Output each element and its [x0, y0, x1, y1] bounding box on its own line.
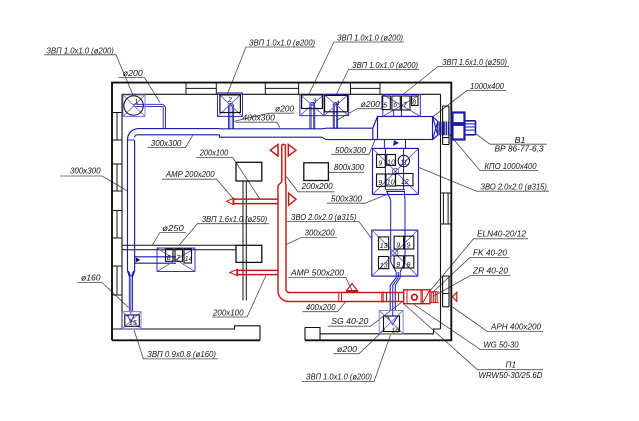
- lower grille box: [372, 230, 418, 276]
- left wall inner: [121, 94, 123, 329]
- vertical duct 300x200: [278, 186, 286, 291]
- svg-text:АМР 200x200: АМР 200x200: [165, 170, 215, 179]
- right cone: [433, 117, 438, 140]
- svg-text:FK 40-20: FK 40-20: [473, 249, 508, 258]
- svg-text:15: 15: [129, 320, 137, 327]
- riser 4: [333, 103, 337, 129]
- leader WG: [413, 304, 520, 350]
- hood rect 2: [304, 163, 329, 181]
- spur duct to ZVP1.6 box: [135, 257, 176, 263]
- diffuser 15 rect: [125, 315, 140, 326]
- svg-text:1000x400: 1000x400: [470, 82, 505, 91]
- funnel lower box: [391, 262, 405, 278]
- window L1: [112, 113, 122, 141]
- diffuser 4 box: [325, 95, 348, 111]
- svg-text:КПО 1000x400: КПО 1000x400: [485, 162, 538, 171]
- KPO wall sleeve top (fan): [443, 106, 449, 145]
- duct 300x300 horizontal: [137, 129, 219, 135]
- leader 400x200: [303, 302, 346, 312]
- fan outlet louver: [465, 121, 476, 135]
- svg-text:14: 14: [185, 256, 193, 263]
- svg-text:ВР 86-77-6,3: ВР 86-77-6,3: [495, 145, 545, 154]
- svg-text:9: 9: [407, 243, 411, 250]
- leader 300x200: [286, 238, 337, 245]
- flanges: [339, 292, 383, 303]
- box 13b: [379, 257, 389, 269]
- window R1: [441, 193, 452, 224]
- X grille 5-8 box: [383, 95, 421, 117]
- box 8 left: [166, 249, 174, 261]
- duct 400x300: [220, 129, 323, 137]
- riser to diffuser 16: [390, 278, 400, 316]
- svg-text:WRW50-30/25.6D: WRW50-30/25.6D: [479, 371, 543, 380]
- box 7 left: [175, 249, 183, 261]
- right wall inner: [440, 94, 442, 329]
- svg-text:1: 1: [134, 99, 138, 106]
- riser 2: [229, 103, 234, 129]
- svg-text:WG 50-30: WG 50-30: [484, 341, 520, 350]
- leader KPO: [450, 135, 539, 171]
- flex connector striped: [430, 292, 439, 303]
- leader ZVP2: [228, 47, 316, 94]
- svg-text:ø200: ø200: [123, 69, 144, 78]
- box 9b: [377, 174, 386, 186]
- box 9e: [394, 256, 404, 268]
- svg-text:В1: В1: [515, 136, 526, 145]
- diffuser 3 box: [302, 95, 323, 109]
- window T1: [186, 83, 216, 95]
- riser 3: [310, 102, 315, 128]
- riser to grille 5-8: [394, 110, 402, 117]
- svg-text:9: 9: [378, 161, 382, 168]
- leader F200 #4: [334, 329, 386, 354]
- leader ZVP3: [309, 42, 404, 94]
- blue flow arrow: [393, 140, 399, 146]
- svg-text:9: 9: [378, 180, 382, 187]
- window T2: [265, 83, 298, 95]
- leader APH: [453, 307, 544, 332]
- arrow upper: [227, 198, 234, 204]
- leader AMP500x200: [288, 277, 353, 292]
- duct 500x300: [322, 128, 373, 139]
- svg-text:ЗВО 2.0x2.0 (ø315): ЗВО 2.0x2.0 (ø315): [291, 213, 357, 222]
- duct f160: [129, 278, 132, 315]
- leader label ZVP1 top-left: [44, 55, 133, 95]
- leader ZVP4: [336, 70, 419, 96]
- flange: [128, 139, 135, 141]
- bottom wall inner right: [305, 328, 441, 341]
- funnel in diffuser 15: [128, 315, 134, 322]
- APH wall sleeve bottom: [443, 276, 449, 307]
- X diffuser 3: [300, 94, 324, 115]
- duct plenum to upper box: [384, 140, 405, 149]
- leader F160: [78, 283, 129, 308]
- leader V1: [476, 134, 547, 144]
- top wall inner: [122, 93, 441, 95]
- leader 500x300: [331, 140, 375, 155]
- black duct 200x100 vertical: [243, 181, 246, 301]
- duct between boxes: [391, 200, 405, 230]
- svg-text:200x200: 200x200: [301, 182, 334, 191]
- transition to plenum: [373, 117, 378, 140]
- svg-text:200x100: 200x100: [199, 149, 229, 158]
- X diffuser 2: [218, 93, 243, 117]
- box 9d: [404, 236, 414, 249]
- outlet arrow through wall: [452, 292, 457, 301]
- hood rect 1: [236, 162, 262, 181]
- box 9: [377, 155, 386, 168]
- svg-text:ø160: ø160: [81, 273, 101, 282]
- spur arrow: [136, 258, 141, 263]
- svg-text:ЗВО 2.0x2.0 (ø315): ЗВО 2.0x2.0 (ø315): [480, 182, 547, 191]
- svg-text:800x300: 800x300: [334, 163, 365, 172]
- diffuser 1 square: [123, 95, 145, 117]
- X upper grille box: [373, 148, 419, 194]
- svg-text:ЗВП 1.0x1.0 (ø200): ЗВП 1.0x1.0 (ø200): [46, 47, 114, 56]
- svg-text:13: 13: [380, 243, 388, 250]
- svg-text:5: 5: [383, 103, 387, 110]
- svg-text:10: 10: [387, 180, 395, 187]
- window T3: [351, 83, 381, 95]
- leader ZVO315 #2: [287, 222, 372, 239]
- leader 200x100 bottom: [212, 276, 266, 318]
- flex connector: [439, 122, 441, 136]
- leader 1000x400: [433, 91, 507, 118]
- box 9c: [394, 236, 404, 249]
- svg-text:3: 3: [313, 99, 317, 106]
- leader 500x300 #2: [327, 194, 388, 203]
- svg-text:6: 6: [393, 102, 397, 109]
- leader F200 #3: [337, 109, 382, 121]
- leader F200 #1: [119, 78, 161, 103]
- svg-text:13: 13: [380, 263, 388, 270]
- circle 11: [398, 155, 409, 166]
- thin duct lower: [237, 270, 278, 274]
- svg-text:500x300: 500x300: [331, 195, 363, 204]
- box 10: [387, 155, 396, 166]
- black duct f250 horizontal: [122, 245, 236, 249]
- svg-text:8: 8: [167, 255, 171, 262]
- svg-text:П1: П1: [506, 361, 517, 370]
- leader ZVP 1.6 top: [403, 67, 509, 95]
- svg-text:ЗВП 0.9x0.8 (ø160): ЗВП 0.9x0.8 (ø160): [147, 350, 216, 359]
- leader ZVP 1.6 #2: [179, 224, 269, 246]
- svg-text:ЗВП 1.0x1.0 (ø200): ЗВП 1.0x1.0 (ø200): [352, 61, 418, 70]
- V transition left duct: [128, 271, 135, 278]
- transition: [278, 182, 286, 186]
- svg-text:8: 8: [412, 100, 416, 107]
- supply opening triangle on top: [347, 284, 358, 291]
- svg-text:11: 11: [400, 160, 407, 167]
- box 12: [396, 174, 414, 186]
- leader 300x300 left: [60, 176, 128, 191]
- leader F200 #2: [234, 113, 295, 121]
- svg-text:ЗВП 1.0x1.0 (ø200): ЗВП 1.0x1.0 (ø200): [249, 39, 315, 48]
- riser duct narrow: [282, 145, 286, 182]
- svg-text:300x300: 300x300: [70, 167, 101, 176]
- window L3: [112, 211, 122, 239]
- hood rect 3: [236, 245, 262, 262]
- diffuser 16 rect: [384, 316, 400, 332]
- box 14 left: [184, 249, 192, 263]
- wall outer contour: [112, 83, 451, 341]
- heater unit: [404, 290, 430, 304]
- svg-text:2: 2: [227, 97, 232, 104]
- svg-text:9: 9: [396, 262, 400, 269]
- wall inner lines: [112, 94, 441, 340]
- svg-text:300x300: 300x300: [151, 139, 182, 148]
- leader ZVP 0.9x0.8: [134, 330, 218, 359]
- side triangle right: [289, 193, 296, 205]
- svg-text:200x100: 200x100: [212, 309, 244, 318]
- X lower grille box: [372, 230, 418, 276]
- svg-text:9: 9: [396, 243, 400, 250]
- leader F250: [152, 233, 186, 246]
- X diffuser 4: [324, 94, 349, 115]
- svg-text:ELN40-20/12: ELN40-20/12: [477, 230, 527, 239]
- diffuser 16 square: [379, 311, 403, 334]
- svg-text:ø250: ø250: [162, 224, 184, 233]
- svg-text:ЗВП 1.6x1.0 (ø250): ЗВП 1.6x1.0 (ø250): [442, 58, 507, 67]
- bottom wall inner left: [112, 326, 260, 341]
- supply terminal triangles: [270, 145, 278, 157]
- X ZVP1.6 box: [157, 248, 195, 272]
- leader AMP200x200: [162, 179, 233, 198]
- window L2: [112, 164, 122, 191]
- fan housing: [453, 113, 465, 124]
- upper grille box: [373, 148, 419, 194]
- svg-text:400x200: 400x200: [306, 303, 336, 312]
- box 13: [379, 237, 389, 250]
- ticks: [387, 293, 399, 302]
- diffuser 15 square: [122, 312, 141, 329]
- elbow corner: [128, 129, 139, 140]
- leader 800x300: [328, 171, 364, 173]
- funnel below upper box: [386, 190, 405, 200]
- arrow lower: [230, 269, 237, 275]
- funnel in diffuser 16: [388, 317, 398, 325]
- svg-text:400x300: 400x300: [242, 114, 275, 123]
- grille 6: [392, 96, 400, 110]
- svg-text:12: 12: [401, 179, 409, 186]
- grille 8: [412, 96, 419, 106]
- main duct 400x200: [288, 293, 404, 302]
- plenum 1000x400: [378, 117, 433, 140]
- grille 7: [402, 96, 411, 110]
- svg-text:10: 10: [387, 160, 395, 167]
- svg-text:ø200: ø200: [361, 100, 381, 109]
- leader 200x200: [286, 177, 334, 192]
- leader ZVP bottom: [302, 335, 391, 382]
- svg-text:ZR 40-20: ZR 40-20: [472, 267, 509, 276]
- svg-text:ЗВП 1.0x1.0 (ø200): ЗВП 1.0x1.0 (ø200): [337, 34, 403, 43]
- diffuser 2 box: [220, 95, 241, 113]
- svg-text:9: 9: [407, 262, 411, 269]
- leader ZVO315 #1: [419, 168, 549, 192]
- windows top wall: [112, 83, 451, 295]
- diffuser 1 circle: [124, 96, 143, 115]
- verticals in upper box: [385, 148, 403, 189]
- box 9f: [404, 256, 414, 268]
- leader 400x300: [236, 122, 280, 127]
- svg-text:ЗВП 1.0x1.0 (ø200): ЗВП 1.0x1.0 (ø200): [306, 372, 372, 381]
- leader 300x300 corner: [147, 135, 192, 147]
- svg-text:ø200: ø200: [275, 105, 295, 114]
- svg-text:300x200: 300x200: [305, 229, 336, 238]
- duct 300x300 vertical left: [128, 140, 135, 272]
- box 10b: [386, 174, 396, 186]
- svg-text:АРН 400x200: АРН 400x200: [490, 323, 542, 332]
- leader 200x100: [196, 157, 260, 199]
- verticals in lower box: [391, 230, 405, 262]
- thin duct 200x100 upper: [233, 199, 278, 204]
- svg-text:ЗВП 1.6x1.0 (ø250): ЗВП 1.6x1.0 (ø250): [202, 215, 268, 224]
- svg-text:SG 40-20: SG 40-20: [331, 317, 369, 326]
- leader P1: [405, 305, 544, 370]
- elbow bottom: [278, 290, 289, 302]
- svg-text:500x300: 500x300: [335, 146, 367, 155]
- leader ZR: [434, 276, 511, 296]
- svg-text:4: 4: [336, 101, 340, 108]
- riser diffuser1 duct: [133, 104, 166, 128]
- window L4: [112, 266, 122, 295]
- fan in wall: [443, 122, 450, 136]
- grille 5: [382, 96, 390, 110]
- leader ELN: [430, 239, 529, 292]
- leader FK: [432, 257, 510, 293]
- svg-text:ø200: ø200: [337, 345, 358, 354]
- svg-text:АМР 500x200: АМР 500x200: [290, 269, 345, 278]
- svg-text:16: 16: [392, 328, 400, 335]
- leader SG40-20: [328, 301, 404, 326]
